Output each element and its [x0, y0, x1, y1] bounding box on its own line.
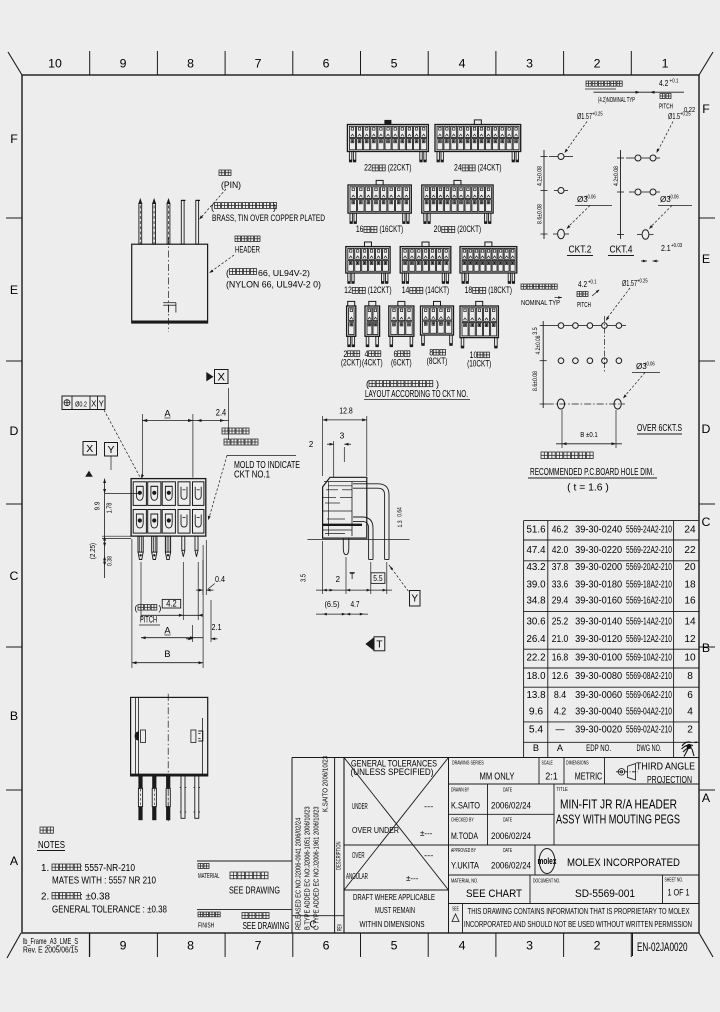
svg-text:+0.25: +0.25: [592, 112, 603, 118]
svg-text:C: C: [702, 515, 711, 529]
svg-text:RELEASED EC NO:J2006-0941: RELEASED EC NO:J2006-0941 2006/02/24: [294, 818, 303, 930]
svg-text:Ø1.57: Ø1.57: [577, 112, 592, 121]
svg-text:DRAWN BY: DRAWN BY: [451, 788, 469, 794]
label 16CKT: [356, 224, 403, 235]
svg-text:A: A: [702, 791, 711, 805]
svg-text:F: F: [10, 132, 18, 146]
svg-text:CKT NO.1: CKT NO.1: [234, 470, 270, 481]
leader to header body: [211, 255, 235, 272]
svg-text:A: A: [557, 743, 564, 753]
svg-text:8.6±0.08: 8.6±0.08: [537, 204, 544, 224]
svg-text:4.2±0.08: 4.2±0.08: [537, 166, 544, 186]
svg-text:C: C: [309, 920, 316, 931]
svg-text:39.0: 39.0: [527, 579, 546, 590]
leader to pin: [201, 189, 227, 218]
svg-text:X: X: [86, 443, 93, 455]
svg-text:5569-14A2-210: 5569-14A2-210: [626, 616, 672, 627]
connector face view 6CKT: [389, 301, 414, 347]
svg-text:B TYPE ADDED EC NO:J2006-105: B TYPE ADDED EC NO:J2006-1051 2006/10/23: [303, 806, 312, 930]
datum flag right of side view: [389, 565, 409, 592]
svg-text:39-30-0200: 39-30-0200: [575, 562, 622, 573]
svg-text:39-30-0060: 39-30-0060: [575, 690, 622, 701]
front view cavity row2 col5: [193, 510, 204, 534]
svg-text:: ±0.38: : ±0.38: [80, 892, 111, 903]
svg-text:4.2: 4.2: [659, 79, 669, 88]
svg-text:14: 14: [684, 616, 696, 627]
svg-text:: 5557-NR-210: : 5557-NR-210: [80, 863, 135, 874]
svg-text:SD-5569-001: SD-5569-001: [575, 888, 635, 900]
svg-text:(8CKT): (8CKT): [427, 356, 448, 366]
material box: [197, 860, 292, 862]
side view dim 3: [333, 441, 335, 477]
svg-text:EN-02JA0020: EN-02JA0020: [637, 940, 688, 954]
svg-text:F: F: [702, 102, 710, 116]
svg-text:HEADER: HEADER: [235, 245, 260, 255]
upper connector peg 1: [181, 200, 184, 244]
svg-text:12.6: 12.6: [552, 671, 569, 682]
svg-text:Ø1.5: Ø1.5: [668, 112, 681, 121]
feature control frame: [62, 396, 105, 410]
svg-text:—: —: [556, 725, 566, 736]
svg-text:A: A: [164, 626, 171, 636]
label 20CKT: [434, 224, 481, 235]
svg-text:SEE DRAWING: SEE DRAWING: [229, 885, 280, 897]
svg-text:30.6: 30.6: [527, 616, 546, 627]
svg-text:9: 9: [120, 57, 127, 71]
svg-text:22: 22: [684, 545, 696, 556]
svg-text:2: 2: [594, 939, 601, 953]
front view cavity row1 col1: [133, 482, 146, 506]
svg-text:3.5: 3.5: [301, 574, 308, 582]
svg-text:A: A: [10, 854, 19, 868]
svg-text:): ): [273, 202, 276, 212]
svg-text:39-30-0240: 39-30-0240: [575, 525, 622, 536]
front view cavity row1 col5: [193, 482, 204, 506]
svg-text:D: D: [702, 422, 711, 436]
label pitch top right: [659, 94, 673, 111]
svg-text:39-30-0120: 39-30-0120: [575, 634, 622, 645]
table row 18 ckt: [527, 579, 696, 590]
svg-text:(NYLON 66, UL94V-2 0): (NYLON 66, UL94V-2 0): [226, 280, 321, 290]
part table grid: [524, 521, 700, 758]
svg-text:DOCUMENT NO.: DOCUMENT NO.: [533, 879, 560, 885]
svg-text:47.4: 47.4: [527, 545, 546, 556]
ckt4 tick marks: [617, 158, 624, 235]
svg-text:1: 1: [662, 57, 669, 71]
ckt4 holes middle row: [635, 189, 641, 195]
svg-text:3: 3: [526, 939, 533, 953]
frame zone ticks right: [699, 218, 715, 790]
svg-text:K.SAITO: K.SAITO: [451, 801, 480, 811]
svg-text:DATE: DATE: [503, 788, 512, 794]
upper connector latch detail: [163, 302, 176, 304]
table row 24 ckt: [527, 525, 696, 536]
svg-text:22.2: 22.2: [527, 653, 546, 664]
svg-text:5569-20A2-210: 5569-20A2-210: [626, 562, 672, 573]
side view dim 6.5 4.7: [316, 613, 368, 615]
svg-text:10: 10: [684, 653, 696, 664]
table row 4 ckt: [529, 707, 693, 718]
svg-text:(14CKT): (14CKT): [425, 285, 449, 296]
svg-text:42.0: 42.0: [552, 545, 569, 556]
label pin (japanese): [219, 170, 225, 176]
svg-text:4.2: 4.2: [554, 707, 567, 718]
svg-text:5569-04A2-210: 5569-04A2-210: [626, 707, 672, 718]
svg-text:20: 20: [684, 562, 696, 573]
svg-text:(4CKT): (4CKT): [362, 357, 383, 367]
svg-text:2: 2: [309, 440, 313, 449]
svg-text:6: 6: [323, 57, 330, 71]
svg-text:24: 24: [684, 525, 696, 536]
label 18CKT: [465, 285, 512, 296]
svg-text:(UNLESS SPECIFIED): (UNLESS SPECIFIED): [351, 767, 434, 777]
table row 10 ckt: [527, 653, 696, 664]
svg-text:12: 12: [684, 634, 696, 645]
svg-text:2006/02/24: 2006/02/24: [491, 831, 531, 841]
front view pins bottom: [138, 536, 143, 559]
pcb pitch dimension top: [594, 91, 685, 93]
over6 centerline vertical: [603, 316, 605, 372]
connector face view 16CKT: [348, 180, 411, 224]
svg-text:8: 8: [187, 939, 194, 953]
datum target boxes left: [83, 442, 97, 456]
svg-text:6: 6: [323, 939, 330, 953]
svg-text:Y: Y: [411, 594, 418, 605]
svg-text:66, UL94V-2): 66, UL94V-2): [258, 268, 310, 278]
note layout according to ckt no (japanese): [366, 379, 439, 389]
svg-text:5: 5: [391, 939, 398, 953]
svg-text:OVER: OVER: [352, 851, 365, 860]
svg-text:43.2: 43.2: [527, 562, 546, 573]
svg-text:4.2±0.08: 4.2±0.08: [613, 166, 620, 186]
table row 12 ckt: [527, 634, 696, 645]
table row 22 ckt: [527, 545, 696, 556]
svg-text:(: (: [366, 379, 369, 389]
svg-text:(24CKT): (24CKT): [478, 163, 502, 174]
table row 2 ckt: [529, 725, 693, 736]
svg-text:39-30-0020: 39-30-0020: [575, 725, 622, 736]
svg-text:4.7: 4.7: [350, 600, 359, 609]
svg-text:1 OF 1: 1 OF 1: [668, 888, 690, 898]
svg-text:2006/02/24: 2006/02/24: [491, 801, 531, 811]
front view left dims: [104, 479, 106, 578]
datum flag T below side view: [365, 637, 374, 651]
svg-text:34.8: 34.8: [527, 596, 546, 607]
connector face view 2CKT: [347, 301, 356, 347]
front view cavity row1 col4: [178, 482, 190, 506]
svg-text:16.8: 16.8: [552, 653, 569, 664]
lower connector pegs: [180, 776, 186, 818]
svg-text:5: 5: [391, 57, 398, 71]
svg-text:5569-06A2-210: 5569-06A2-210: [626, 690, 672, 701]
svg-text:2: 2: [687, 725, 693, 736]
svg-text:(: (: [226, 268, 229, 278]
label 24CKT: [454, 163, 501, 174]
svg-text:B: B: [702, 641, 710, 655]
datum flag X above front view: [206, 372, 213, 381]
svg-text:C: C: [10, 569, 19, 583]
svg-text:26.4: 26.4: [527, 634, 546, 645]
svg-text:4: 4: [687, 707, 693, 718]
ckt4 layout centerline: [620, 150, 622, 239]
label 8CKT: [427, 348, 448, 367]
dim B bottom: [561, 410, 563, 448]
svg-text:): ): [436, 379, 439, 389]
svg-text:51.6: 51.6: [527, 525, 546, 536]
svg-text:Y.UKITA: Y.UKITA: [451, 861, 480, 871]
svg-text:LAYOUT ACCORDING TO CKT NO.: LAYOUT ACCORDING TO CKT NO.: [365, 389, 468, 400]
svg-text:5.5: 5.5: [373, 574, 383, 583]
side view dim 12.8: [322, 416, 324, 476]
svg-text:0.64: 0.64: [397, 507, 404, 517]
svg-text:E: E: [10, 283, 18, 297]
svg-text:(: (: [135, 603, 138, 613]
note mold to indicate ckt no: [227, 454, 296, 456]
svg-text:B: B: [10, 709, 18, 723]
svg-text:12: 12: [344, 285, 352, 296]
svg-text:NOTES: NOTES: [38, 840, 65, 851]
connector face view 14CKT: [400, 242, 451, 284]
svg-text:18: 18: [684, 579, 696, 590]
svg-text:INCORPORATED AND SHOULD NOT BE: INCORPORATED AND SHOULD NOT BE USED WITH…: [464, 919, 692, 929]
svg-text:T: T: [376, 640, 383, 651]
ckt4 holes top row: [635, 155, 641, 161]
svg-text:THIS DRAWING CONTAINS INFORMAT: THIS DRAWING CONTAINS INFORMATION THAT I…: [468, 906, 690, 916]
svg-text:Rev. E 2005/06/15: Rev. E 2005/06/15: [23, 945, 78, 955]
zone letters right: [702, 102, 711, 805]
frame zone ticks top: [90, 51, 632, 75]
svg-text:K.SAITO 2006/10/23: K.SAITO 2006/10/23: [321, 756, 330, 812]
svg-text:18.0: 18.0: [527, 671, 546, 682]
svg-text:SEE DRAWING: SEE DRAWING: [243, 921, 290, 932]
upper connector peg 2: [196, 200, 199, 244]
front view cavity row2 col2: [148, 510, 161, 534]
svg-text:DATE: DATE: [503, 848, 512, 854]
label 10CKT: [467, 350, 491, 369]
svg-text:(18CKT): (18CKT): [488, 285, 512, 296]
svg-text:3: 3: [526, 57, 533, 71]
over6 holes top row: [547, 323, 626, 329]
svg-text:TITLE: TITLE: [557, 787, 568, 793]
svg-text:RECOMMENDED P.C.BOARD HOLE DIM: RECOMMENDED P.C.BOARD HOLE DIM.: [530, 467, 654, 478]
svg-text:±---: ±---: [420, 829, 433, 838]
frame zone ticks left: [6, 218, 22, 790]
svg-text:2: 2: [336, 575, 340, 584]
molex logo: [539, 849, 555, 874]
svg-text:(2.25): (2.25): [90, 543, 97, 559]
svg-text:46.2: 46.2: [552, 525, 569, 536]
ckt2 tick marks: [541, 157, 548, 235]
svg-text:10: 10: [48, 57, 62, 71]
svg-text:+0.06: +0.06: [668, 195, 679, 201]
over6 tick marks: [540, 326, 547, 404]
dim A bottom: [141, 637, 203, 639]
svg-text:4: 4: [459, 939, 466, 953]
frame corner diagonal top-left: [8, 52, 22, 75]
label 6CKT: [391, 349, 412, 368]
molex flying logo: [682, 742, 698, 757]
svg-text:CHECKED BY: CHECKED BY: [451, 818, 474, 824]
connector face view 8CKT: [421, 301, 454, 345]
svg-text:2.1: 2.1: [661, 243, 671, 253]
frame corner diagonal top-right: [699, 52, 713, 75]
svg-text:(6CKT): (6CKT): [391, 357, 412, 367]
dim 2.1 bottom: [192, 625, 194, 642]
label 2CKT: [341, 349, 362, 368]
frame title box bottom-left: [88, 933, 90, 957]
svg-text:SEE: SEE: [452, 907, 459, 913]
svg-text:MM ONLY: MM ONLY: [480, 772, 515, 783]
upper connector view body: [132, 244, 208, 323]
svg-text:12.8: 12.8: [339, 406, 353, 416]
table row 8 ckt: [527, 671, 694, 682]
svg-text:39-30-0160: 39-30-0160: [575, 596, 622, 607]
table row 16 ckt: [527, 596, 696, 607]
svg-text:8: 8: [187, 57, 194, 71]
frame corner diagonal bottom-right: [699, 933, 713, 957]
table header row: [533, 743, 662, 753]
svg-text:FINISH: FINISH: [198, 923, 214, 930]
ckt2 peg hole bottom: [558, 229, 565, 239]
over6 layout left line: [542, 321, 544, 408]
svg-text:DESCRIPTION: DESCRIPTION: [336, 841, 343, 870]
dim B bottom: [131, 539, 133, 668]
side view pin lower: [353, 517, 373, 560]
lower connector pins: [138, 776, 142, 820]
svg-text:9.9: 9.9: [93, 502, 102, 511]
svg-text:37.8: 37.8: [552, 562, 569, 573]
svg-text:B ±0.1: B ±0.1: [580, 430, 598, 439]
upper connector pin 2: [153, 204, 156, 245]
pcb note top (japanese): [585, 81, 622, 89]
recommended pcb hole title (japanese): [541, 452, 548, 459]
svg-text:22: 22: [364, 163, 372, 174]
svg-text:MATES WITH : 5557 NR 210: MATES WITH : 5557 NR 210: [52, 875, 156, 887]
table row 6 ckt: [527, 690, 694, 701]
svg-text:+0.1: +0.1: [588, 280, 597, 286]
front view cavity row2 col3: [162, 510, 175, 534]
connector face view 24CKT: [435, 120, 521, 162]
svg-text:39-30-0100: 39-30-0100: [575, 653, 622, 664]
svg-text:(10CKT): (10CKT): [467, 359, 491, 369]
svg-text:BRASS, TIN OVER COPPER PLATED: BRASS, TIN OVER COPPER PLATED: [212, 213, 325, 223]
frame corner diagonal bottom-left: [7, 933, 21, 958]
svg-text:8.6±0.08: 8.6±0.08: [532, 371, 539, 391]
svg-text:(PIN): (PIN): [221, 180, 241, 190]
over6 holes second row: [558, 358, 622, 364]
ckt2 hole middle: [558, 188, 564, 194]
svg-text:SEE CHART: SEE CHART: [466, 888, 522, 900]
svg-text:+0.25: +0.25: [637, 279, 648, 285]
tolerance rows: [346, 802, 434, 883]
svg-text:MATERIAL NO.: MATERIAL NO.: [451, 879, 478, 885]
svg-text:24: 24: [454, 163, 462, 174]
side view lower dims: [322, 541, 324, 594]
svg-text:CKT.4: CKT.4: [610, 244, 633, 256]
svg-text:X: X: [91, 400, 97, 409]
front view cavity row2 col4: [178, 510, 190, 534]
side view pin upper: [353, 484, 389, 560]
svg-text:X: X: [217, 372, 225, 384]
svg-text:SHEET NO.: SHEET NO.: [665, 878, 684, 884]
lower connector centerline: [167, 694, 169, 822]
front view cavity row2 col1: [133, 510, 146, 534]
svg-text:5569-24A2-210: 5569-24A2-210: [626, 525, 672, 536]
svg-text:3: 3: [340, 431, 345, 441]
svg-text:CKT.2: CKT.2: [569, 244, 592, 256]
svg-text:Ø1.57: Ø1.57: [622, 279, 637, 288]
svg-text:5569-12A2-210: 5569-12A2-210: [626, 634, 672, 645]
svg-text:OVER UNDER: OVER UNDER: [352, 826, 399, 835]
svg-text:(16CKT): (16CKT): [379, 224, 403, 235]
front view body: [131, 479, 206, 536]
lower connector latch details: [135, 732, 139, 741]
svg-text:39-30-0220: 39-30-0220: [575, 545, 622, 556]
svg-text:2006/02/24: 2006/02/24: [491, 861, 531, 871]
svg-text:39-30-0040: 39-30-0040: [575, 707, 622, 718]
dim A top: [141, 414, 143, 478]
zone numbers top: [48, 57, 668, 71]
svg-text:PROJECTION: PROJECTION: [647, 775, 692, 786]
pitch dim line: [140, 562, 142, 620]
svg-text:+0.25: +0.25: [680, 112, 691, 118]
svg-text:9: 9: [120, 939, 127, 953]
svg-text:GENERAL TOLERANCE : ±0.38: GENERAL TOLERANCE : ±0.38: [52, 904, 167, 916]
svg-text:Y: Y: [99, 400, 105, 409]
svg-text:1.: 1.: [41, 863, 49, 874]
svg-text:OVER 6CKT.S: OVER 6CKT.S: [637, 423, 682, 434]
over6 note japanese: [521, 284, 560, 307]
svg-text:0.38: 0.38: [107, 556, 114, 566]
svg-text:PITCH: PITCH: [577, 300, 591, 309]
datum solid triangle: [85, 471, 93, 477]
svg-text:3.5: 3.5: [532, 327, 539, 335]
svg-text:C TYPE ADDED EC NO:J2006-196: C TYPE ADDED EC NO:J2006-1961 2006/10/23: [312, 806, 321, 930]
dim 2.4 top: [228, 388, 230, 440]
svg-text:DIMENSIONS: DIMENSIONS: [566, 761, 589, 767]
general tolerances cross: [344, 758, 449, 891]
finish box: [197, 909, 292, 911]
revision strip frame: [291, 758, 293, 934]
svg-text:): ): [159, 603, 162, 613]
label 14CKT: [402, 285, 449, 296]
upper connector centerline: [168, 237, 170, 332]
svg-text:5569-10A2-210: 5569-10A2-210: [626, 653, 672, 664]
svg-text:(: (: [211, 202, 214, 212]
svg-text:33.6: 33.6: [552, 579, 569, 590]
ckt2 hole top: [558, 154, 564, 160]
table row 14 ckt: [527, 616, 696, 627]
svg-text:M.TODA: M.TODA: [451, 831, 479, 841]
connector face view 20CKT: [422, 180, 493, 224]
svg-text:2.4: 2.4: [216, 408, 226, 418]
frame zone ticks bottom: [90, 933, 632, 957]
label 12CKT: [344, 285, 391, 296]
svg-text:1.3: 1.3: [397, 520, 404, 528]
svg-text:8.4: 8.4: [554, 690, 567, 701]
svg-text:MOLEX INCORPORATED: MOLEX INCORPORATED: [567, 857, 680, 869]
upper connector pin 1: [139, 204, 142, 245]
svg-text:---: ---: [424, 851, 434, 860]
svg-text:16: 16: [684, 596, 696, 607]
svg-text:SCALE: SCALE: [542, 761, 553, 767]
svg-text:MATERIAL: MATERIAL: [198, 873, 220, 880]
svg-text:REV: REV: [337, 923, 344, 931]
svg-text:PITCH: PITCH: [659, 102, 673, 111]
svg-text:ANGULAR: ANGULAR: [346, 872, 368, 881]
svg-text:B: B: [533, 743, 539, 753]
connector face view 22CKT: [347, 120, 428, 162]
